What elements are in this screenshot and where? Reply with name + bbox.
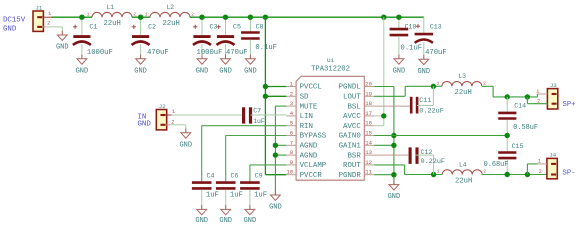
svg-text:0.1uF: 0.1uF [401, 45, 423, 53]
svg-text:ROUT: ROUT [343, 162, 361, 170]
svg-text:1: 1 [145, 11, 148, 17]
svg-text:C4: C4 [207, 173, 215, 180]
svg-text:2: 2 [538, 169, 541, 175]
svg-text:MUTE: MUTE [300, 103, 318, 111]
svg-text:GND: GND [244, 217, 257, 225]
svg-text:2: 2 [537, 98, 540, 104]
svg-text:2: 2 [483, 169, 486, 175]
svg-text:VCLAMP: VCLAMP [300, 162, 327, 170]
svg-text:1: 1 [536, 89, 539, 95]
svg-text:DC15V: DC15V [3, 16, 26, 24]
svg-text:16: 16 [365, 120, 372, 127]
svg-text:GND: GND [219, 67, 232, 75]
svg-text:BYPASS: BYPASS [300, 133, 327, 141]
svg-text:GAIN1: GAIN1 [339, 143, 362, 151]
svg-text:1: 1 [437, 81, 440, 87]
svg-text:1uF: 1uF [253, 118, 265, 125]
svg-text:C12: C12 [421, 149, 433, 156]
svg-text:AVCC: AVCC [343, 123, 361, 131]
svg-text:GND: GND [219, 217, 232, 225]
svg-text:J4: J4 [549, 152, 556, 159]
svg-text:L1: L1 [107, 4, 115, 11]
svg-text:0.22uF: 0.22uF [419, 108, 443, 116]
svg-text:J3: J3 [550, 82, 557, 89]
svg-text:C3: C3 [210, 23, 218, 30]
svg-text:GND: GND [417, 68, 430, 76]
svg-text:2: 2 [290, 90, 293, 97]
svg-text:GND: GND [76, 67, 89, 75]
svg-text:2: 2 [483, 81, 486, 87]
svg-text:470uF: 470uF [226, 49, 248, 57]
svg-text:19: 19 [365, 90, 372, 97]
svg-text:AGND: AGND [300, 143, 318, 151]
svg-text:GND: GND [393, 67, 406, 75]
svg-text:1: 1 [538, 159, 541, 165]
svg-text:0.22uF: 0.22uF [421, 158, 445, 166]
svg-text:1: 1 [48, 11, 51, 17]
svg-text:GAIN0: GAIN0 [339, 133, 361, 141]
svg-text:LIN: LIN [300, 113, 313, 121]
svg-text:GND: GND [56, 44, 69, 52]
svg-text:17: 17 [365, 110, 372, 117]
svg-text:PVCCL: PVCCL [300, 84, 322, 92]
svg-text:22uH: 22uH [455, 89, 472, 97]
svg-text:GND: GND [3, 25, 17, 33]
svg-text:GND: GND [269, 204, 282, 212]
svg-text:L2: L2 [167, 4, 175, 11]
svg-text:6: 6 [290, 130, 293, 137]
svg-text:C6: C6 [231, 173, 239, 180]
svg-text:1000uF: 1000uF [87, 49, 113, 57]
svg-text:22uH: 22uH [163, 20, 180, 28]
svg-text:20: 20 [365, 81, 372, 88]
svg-text:5: 5 [290, 120, 293, 127]
svg-text:470uF: 470uF [147, 49, 169, 57]
svg-text:1uF: 1uF [230, 192, 243, 200]
svg-text:LOUT: LOUT [343, 94, 361, 102]
svg-text:C14: C14 [514, 103, 526, 110]
svg-text:SP+: SP+ [563, 101, 576, 109]
svg-text:C5: C5 [233, 23, 241, 30]
svg-text:1: 1 [172, 109, 175, 115]
svg-text:15: 15 [365, 130, 372, 137]
svg-text:9: 9 [290, 159, 293, 166]
svg-text:GND: GND [138, 120, 152, 128]
svg-text:U1: U1 [327, 57, 335, 64]
svg-text:BSL: BSL [347, 103, 360, 111]
svg-text:C13: C13 [430, 23, 442, 30]
svg-text:GND: GND [195, 217, 208, 225]
svg-text:PVCCR: PVCCR [300, 172, 323, 180]
svg-text:AVCC: AVCC [343, 113, 361, 121]
svg-text:C8: C8 [256, 23, 264, 30]
svg-text:14: 14 [365, 139, 372, 146]
svg-text:1uF: 1uF [254, 192, 267, 200]
svg-text:TPA312202: TPA312202 [311, 65, 350, 73]
svg-text:J2: J2 [159, 103, 166, 110]
svg-text:C7: C7 [253, 108, 261, 115]
svg-text:GND: GND [244, 67, 257, 75]
svg-text:BSR: BSR [347, 152, 361, 160]
svg-text:GND: GND [388, 193, 401, 201]
svg-text:22uH: 22uH [455, 177, 472, 185]
svg-text:1uF: 1uF [206, 192, 219, 200]
svg-text:GND: GND [196, 67, 209, 75]
svg-text:AGND: AGND [300, 152, 318, 160]
svg-text:12: 12 [365, 159, 372, 166]
svg-text:C10: C10 [405, 23, 417, 30]
svg-text:C1: C1 [89, 23, 97, 30]
svg-text:2: 2 [47, 21, 50, 27]
svg-text:18: 18 [365, 100, 372, 107]
svg-text:1: 1 [437, 169, 440, 175]
svg-text:C9: C9 [255, 173, 263, 180]
svg-text:C2: C2 [148, 23, 156, 30]
svg-text:SD: SD [300, 94, 309, 102]
svg-text:1000uF: 1000uF [197, 49, 223, 57]
svg-text:3: 3 [290, 100, 293, 107]
svg-text:GND: GND [134, 67, 147, 75]
svg-text:PGNDR: PGNDR [339, 172, 362, 180]
svg-text:470uF: 470uF [425, 49, 447, 57]
svg-text:1: 1 [87, 11, 90, 17]
svg-text:PGNDL: PGNDL [339, 84, 361, 92]
svg-text:7: 7 [290, 139, 293, 146]
svg-text:J1: J1 [36, 4, 43, 11]
svg-text:SP-: SP- [563, 170, 576, 178]
svg-text:11: 11 [365, 169, 372, 176]
svg-text:0.58uF: 0.58uF [513, 124, 538, 132]
svg-text:C11: C11 [419, 97, 431, 104]
svg-text:22uH: 22uH [104, 20, 121, 28]
svg-text:10: 10 [286, 169, 293, 176]
svg-text:L4: L4 [459, 161, 467, 168]
svg-text:8: 8 [290, 149, 293, 156]
svg-text:L3: L3 [459, 73, 467, 80]
svg-text:RIN: RIN [300, 123, 313, 131]
svg-text:13: 13 [365, 149, 372, 156]
svg-text:0.1uF: 0.1uF [255, 44, 277, 52]
svg-text:0.68uF: 0.68uF [484, 161, 509, 169]
svg-text:GND: GND [179, 141, 192, 149]
svg-text:C15: C15 [512, 143, 524, 150]
